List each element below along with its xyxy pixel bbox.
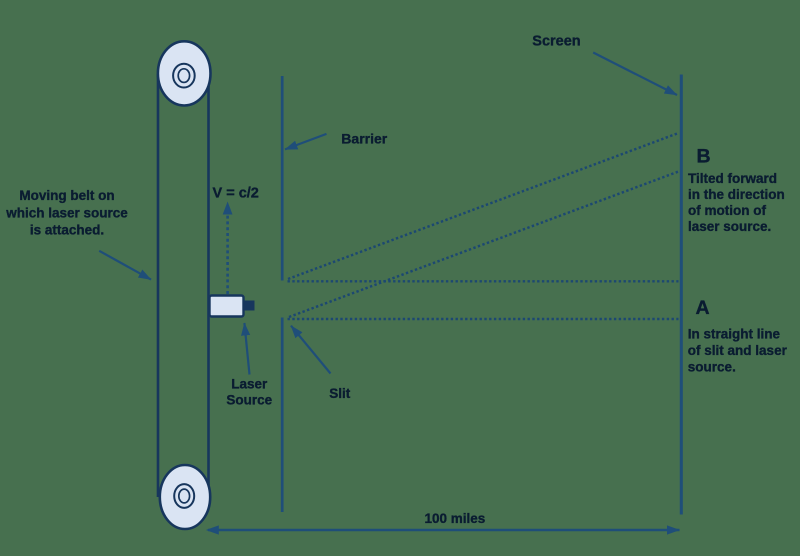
barrier lower section [281,318,284,513]
belt left side wire [157,74,160,497]
distance arrow 100 miles [208,529,680,532]
dotted ray to B lower [289,172,679,318]
svg-text:Tilted forward: Tilted forward [688,171,777,186]
svg-text:In straight line: In straight line [688,327,781,342]
barrier upper section [281,76,284,281]
screen line [680,75,683,515]
label Laser Source [226,376,272,407]
bottom pulley [160,465,210,529]
top pulley [158,41,211,105]
velocity dotted arrow [223,202,233,295]
svg-text:in the direction: in the direction [688,187,785,202]
svg-text:Source: Source [226,392,272,407]
arrow to screen [593,53,677,96]
svg-text:source.: source. [688,359,736,374]
arrow to laser source [244,323,249,375]
note tilted forward [688,171,785,234]
laser source body [210,296,244,317]
arrow to slit [291,326,331,374]
svg-text:of motion of: of motion of [688,203,766,218]
dotted ray to A lower [288,318,679,320]
svg-text:of slit and laser: of slit and laser [688,343,788,358]
left arrowhead [206,525,219,534]
svg-text:B: B [697,145,711,167]
dotted ray to B upper [288,133,679,279]
arrow to belt [99,251,151,280]
svg-text:which laser source: which laser source [5,205,128,220]
note straight line [688,327,788,375]
svg-text:Laser: Laser [231,376,268,391]
svg-text:100 miles: 100 miles [425,511,486,526]
svg-text:Moving belt on: Moving belt on [19,188,114,203]
svg-text:Slit: Slit [329,386,351,401]
svg-text:Barrier: Barrier [341,131,387,147]
svg-text:laser source.: laser source. [688,219,771,234]
svg-text:V = c/2: V = c/2 [213,186,259,202]
laser source nozzle [243,301,255,311]
arrow to barrier [285,134,327,150]
svg-text:Screen: Screen [532,34,580,50]
dotted ray to A upper [288,280,679,282]
label moving belt note [5,188,128,237]
svg-text:is attached.: is attached. [30,223,104,238]
svg-text:A: A [696,297,710,319]
belt right side wire [207,74,210,497]
